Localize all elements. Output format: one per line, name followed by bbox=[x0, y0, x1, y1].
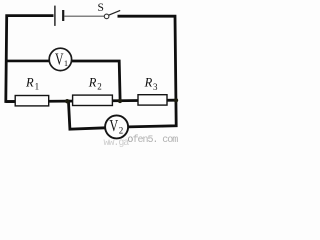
wire: V1 row left segment bbox=[6, 60, 50, 63]
watermark www.gaofen5.com bbox=[104, 139, 129, 149]
wire: switch to top-right corner, right vertical, bottom row to V2 bbox=[118, 16, 177, 127]
switch S contact circle bbox=[104, 14, 109, 19]
wire: resistor row bbox=[6, 100, 176, 101]
svg-text:1: 1 bbox=[35, 82, 40, 92]
svg-text:3: 3 bbox=[153, 82, 158, 92]
resistor R2 bbox=[73, 95, 113, 105]
junction node at R1-R2 (V2 tap) bbox=[65, 99, 69, 103]
wire: top-left corner, left vertical wire and R1 row stub bbox=[6, 16, 54, 102]
wire: V1 right segment and drop to R2-R3 junction bbox=[71, 61, 120, 100]
voltmeter V2 circle bbox=[105, 115, 128, 138]
wire: battery to switch (thin gray) bbox=[64, 15, 104, 17]
resistor R3 bbox=[138, 95, 167, 105]
svg-text:R: R bbox=[25, 76, 34, 90]
battery B1 long plate bbox=[54, 6, 56, 26]
svg-text:2: 2 bbox=[97, 81, 102, 91]
resistor R1 bbox=[15, 96, 49, 106]
svg-text:V: V bbox=[109, 117, 118, 135]
switch S blade (open) bbox=[109, 10, 121, 15]
svg-text:1: 1 bbox=[64, 58, 68, 68]
junction node at R2-R3 (V1 tap) bbox=[118, 99, 122, 103]
svg-text:S: S bbox=[98, 2, 104, 14]
svg-text:2: 2 bbox=[119, 126, 124, 136]
voltmeter V1 circle bbox=[49, 48, 71, 70]
svg-text:R: R bbox=[144, 76, 153, 90]
battery B1 short plate bbox=[62, 10, 64, 21]
svg-text:V: V bbox=[55, 51, 64, 69]
junction node at R3 right / main right wire bbox=[174, 98, 178, 102]
svg-text:R: R bbox=[88, 75, 97, 89]
wire: V2 loop left drop and bottom segment to V2 bbox=[68, 100, 105, 129]
